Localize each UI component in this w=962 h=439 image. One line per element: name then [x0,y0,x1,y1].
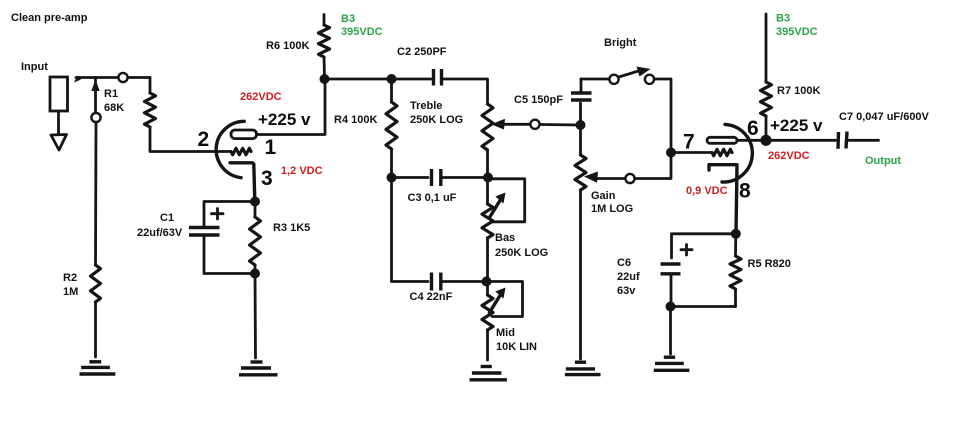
capacitor C3 [432,169,441,186]
svg-text:C1: C1 [160,212,174,224]
svg-text:Output: Output [865,155,901,167]
wire C6 bottom [670,276,673,307]
node plate/R6 [320,74,330,84]
wire node to C2 [392,78,432,81]
svg-text:3: 3 [261,167,273,190]
wire R1 column [149,78,152,94]
svg-text:R6 100K: R6 100K [266,40,309,52]
svg-text:22uf/63V: 22uf/63V [137,227,183,239]
svg-text:C5 150pF: C5 150pF [514,94,563,106]
wire cathode to C1 [204,202,255,226]
ground under Mid [470,367,507,380]
node R4 top [387,74,397,84]
wire R2 to ground [94,302,97,357]
svg-text:B3: B3 [341,13,355,25]
wire R3 to ground [254,274,257,359]
wire C3 row [392,176,429,179]
node gain top / C5 bottom [576,120,586,130]
wire cathode to C6 [672,234,736,258]
bright switch contact right [645,75,654,84]
wire plate node to R4 node [325,78,392,81]
node treble bottom [483,173,493,183]
tube V2 envelope [722,124,752,182]
svg-text:1M LOG: 1M LOG [591,203,633,215]
resistor R1 [145,93,156,127]
connector circle treble wiper [530,120,539,129]
wire plate node to C7 [766,139,836,142]
wire bottom row to R5 [671,305,736,308]
tube V1 grid [231,148,251,154]
wire V2 plate to node [737,139,766,142]
ground under C6 [654,357,690,370]
svg-text:R3 1K5: R3 1K5 [273,222,310,234]
svg-text:R5 R820: R5 R820 [748,258,791,270]
svg-text:250K LOG: 250K LOG [410,114,463,126]
wire C6 node to ground [669,307,672,355]
wire R1 to grid [150,127,231,152]
capacitor C2 [434,69,442,86]
jack tip contact tick [74,76,81,83]
node V2 cathode bottom [731,229,741,239]
ground under R3 [239,362,278,375]
wire left tone column [392,178,429,282]
wire mid wiper loop [488,282,523,317]
resistor R2 [91,265,101,302]
capacitor C7 [838,132,847,149]
resistor R5 [734,234,737,256]
potentiometer Treble wiper arrow [491,119,505,130]
tube V1 envelope [216,121,244,177]
svg-text:1,2 VDC: 1,2 VDC [281,165,323,177]
potentiometer Bas track [486,178,489,205]
potentiometer Treble track [482,104,493,150]
bright switch contact left [609,75,618,84]
svg-text:R1: R1 [104,88,118,100]
svg-text:C6: C6 [617,257,631,269]
potentiometer Gain track [579,125,582,155]
node V1 cathode top [250,197,260,207]
connector circle on top wire [118,73,127,82]
wire B3 feed (V2) [765,14,768,82]
svg-text:395VDC: 395VDC [341,26,383,38]
svg-text:395VDC: 395VDC [776,26,818,38]
svg-text:C7 0,047 uF/600V: C7 0,047 uF/600V [839,111,930,123]
svg-text:C4 22nF: C4 22nF [410,291,453,303]
svg-text:Bas: Bas [495,232,515,244]
capacitor C4 [432,273,441,291]
svg-text:68K: 68K [104,102,124,114]
connector circle gain wiper [625,174,634,183]
wire treble wiper [502,123,530,126]
potentiometer Mid wiper arrow [490,296,501,313]
wire bass wiper loop [488,179,525,222]
tube V1 plate [231,130,257,139]
resistor R7 [761,82,772,116]
svg-text:Input: Input [21,61,48,73]
svg-text:Treble: Treble [410,100,442,112]
node V2 plate [760,135,771,146]
connector circle on R2 wire [91,113,100,122]
wire node to V2 grid [671,151,712,154]
svg-text:1: 1 [265,136,277,159]
capacitor C1 [189,209,223,236]
capacitor C6 [661,245,693,274]
wire wiper to grid column [635,153,671,179]
ground under R2 [80,362,116,374]
input jack J1 [50,77,68,150]
svg-text:7: 7 [683,131,695,154]
node bass bottom [482,277,492,287]
node grid junction arrow [94,78,97,114]
resistor R3 [254,202,257,218]
tube V2 cathode [709,165,737,234]
resistor R6 [319,25,330,57]
svg-text:R2: R2 [63,272,77,284]
svg-text:Gain: Gain [591,190,616,202]
wire input top [76,76,150,79]
tube V2 plate [707,137,737,143]
svg-text:10K LIN: 10K LIN [496,341,537,353]
wire switch to right column [654,79,671,153]
wire C2 to treble top [444,79,488,104]
svg-text:B3: B3 [776,13,790,25]
wire C4 to mid node [443,280,488,283]
capacitor C5 [571,79,592,125]
wire R2 column [94,122,97,265]
svg-text:250K LOG: 250K LOG [495,247,548,259]
potentiometer Bas wiper arrow [490,201,501,218]
potentiometer Gain wiper arrow [584,172,598,183]
svg-text:262VDC: 262VDC [240,91,282,103]
svg-text:2: 2 [198,128,210,151]
svg-text:Mid: Mid [496,327,515,339]
wire wiper to gain node [540,123,581,126]
node R4 bottom [387,173,397,183]
resistor R4 [390,79,393,102]
wire C3 to bass node [443,176,488,179]
bright switch arm [619,71,640,78]
svg-text:8: 8 [739,180,751,203]
svg-text:63v: 63v [617,285,636,297]
tube V2 grid [712,149,732,155]
svg-text:R7 100K: R7 100K [777,85,820,97]
svg-text:6: 6 [747,117,759,140]
ground under Gain [565,362,601,374]
svg-text:+225 v: +225 v [770,116,823,135]
svg-text:262VDC: 262VDC [768,150,810,162]
node grid V2 [666,148,676,158]
svg-text:C3 0,1 uF: C3 0,1 uF [408,192,457,204]
svg-text:0,9 VDC: 0,9 VDC [686,185,728,197]
wire R6 to node [323,57,326,79]
node R3 bottom [250,269,260,279]
svg-text:C2 250PF: C2 250PF [397,46,447,58]
wire gain wiper [595,177,625,180]
wire C1 bottom loop [204,237,255,274]
svg-text:Bright: Bright [604,37,637,49]
potentiometer Mid track [486,282,489,296]
svg-text:22uf: 22uf [617,271,640,283]
tube V1 cathode [230,163,255,201]
node C6/R5 bottom [666,302,676,312]
svg-text:+225 v: +225 v [258,110,311,129]
svg-text:1M: 1M [63,286,78,298]
wire V1 plate to R6 node [257,79,326,135]
svg-text:Clean pre-amp: Clean pre-amp [11,12,88,24]
svg-text:R4 100K: R4 100K [334,114,377,126]
wire C7 to output [849,139,879,142]
wire C5 to bright switch [581,78,609,81]
wire B3 feed (V1) [323,15,326,26]
